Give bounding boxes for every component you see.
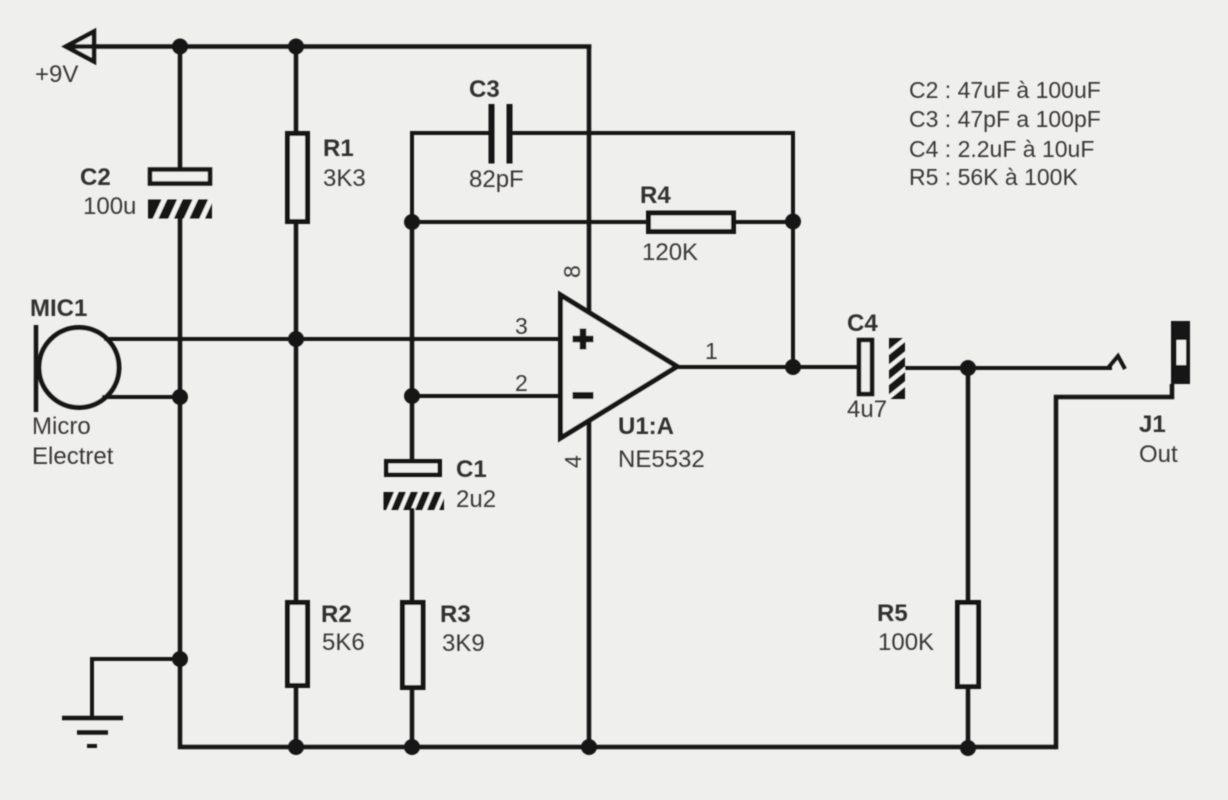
svg-text:3K9: 3K9 [442, 630, 485, 657]
node mic negative [172, 389, 188, 405]
wire jack ground [1056, 384, 1172, 749]
wire mic negative stub [102, 395, 180, 399]
op-amp plus input mark [573, 329, 594, 350]
node pin 2 [404, 388, 420, 404]
wire R1 bottom to R2 top [294, 223, 299, 600]
svg-text:Out: Out [1139, 441, 1178, 468]
wire C1 top lead [410, 396, 415, 459]
connector J1 body [1171, 321, 1190, 384]
svg-text:2: 2 [515, 370, 528, 396]
wire inverting node down [410, 222, 415, 396]
node R5 / rail [960, 740, 976, 756]
svg-text:Electret: Electret [32, 443, 114, 470]
svg-text:Micro: Micro [32, 413, 91, 440]
wire to R4 [412, 220, 646, 224]
wire mic node down [178, 397, 183, 659]
capacitor C2 [148, 170, 213, 223]
svg-text:82pF: 82pF [469, 166, 524, 193]
svg-text:R5: R5 [877, 600, 908, 627]
node ground branch [172, 651, 188, 667]
wire pin 2 [412, 394, 560, 398]
svg-text:1: 1 [705, 338, 718, 364]
jack tip contact [1108, 356, 1125, 369]
wire mic positive to pin 3 [104, 337, 560, 341]
wire output [677, 365, 857, 369]
svg-text:4u7: 4u7 [847, 396, 887, 423]
svg-text:NE5532: NE5532 [618, 446, 705, 473]
wire R1 top lead [294, 47, 299, 133]
ground [62, 718, 123, 746]
wire pin 4 [587, 421, 592, 747]
wire R5 bottom lead [966, 689, 971, 748]
svg-text:J1: J1 [1139, 411, 1166, 438]
wire top rail [66, 44, 591, 49]
resistor R5 [958, 603, 979, 687]
node pin 4 / rail [581, 739, 597, 755]
svg-text:C2 : 47uF à 100uF: C2 : 47uF à 100uF [909, 77, 1101, 103]
node R2 / rail [288, 739, 304, 755]
wire feedback down to output [791, 222, 795, 368]
svg-text:4: 4 [560, 455, 586, 468]
resistor R1 [288, 134, 308, 222]
svg-text:R3: R3 [440, 601, 471, 628]
resistor R2 [288, 603, 308, 686]
microphone MIC1 [36, 325, 119, 412]
wire R5 top lead [966, 368, 971, 600]
resistor R3 [403, 603, 424, 688]
node bias divider [288, 331, 304, 347]
svg-text:5K6: 5K6 [322, 629, 365, 656]
svg-text:C4: C4 [847, 310, 878, 337]
svg-text:C3: C3 [469, 76, 500, 103]
wire ground branch [92, 659, 180, 718]
svg-text:3K3: 3K3 [323, 165, 366, 192]
node R3 / rail [404, 739, 420, 755]
resistor R4 [649, 213, 734, 232]
svg-text:100K: 100K [878, 629, 934, 656]
node inverting branch [404, 214, 420, 230]
power arrow +9V [66, 32, 94, 62]
wire R3 bottom lead [410, 690, 415, 747]
svg-text:R5 : 56K à 100K: R5 : 56K à 100K [909, 164, 1078, 190]
svg-text:C3 : 47pF a 100pF: C3 : 47pF a 100pF [909, 106, 1101, 132]
svg-text:R4: R4 [640, 182, 671, 209]
svg-text:2u2: 2u2 [456, 486, 496, 513]
svg-text:C1: C1 [456, 456, 487, 483]
svg-text:C2: C2 [80, 164, 111, 191]
svg-text:+9V: +9V [35, 61, 78, 88]
wire C2 bottom lead [178, 216, 183, 397]
op-amp minus input mark [573, 392, 594, 399]
svg-text:8: 8 [559, 265, 585, 278]
wire C3 right [512, 133, 793, 221]
wire bottom rail [180, 659, 1056, 747]
svg-text:R1: R1 [323, 135, 354, 162]
svg-text:100u: 100u [83, 193, 136, 220]
wire C4 right [905, 366, 1112, 370]
capacitor C4 [859, 336, 909, 402]
capacitor C1 [384, 461, 447, 514]
svg-text:R2: R2 [321, 601, 352, 628]
svg-text:MIC1: MIC1 [30, 295, 87, 322]
op-amp U1 [561, 295, 678, 438]
svg-text:U1:A: U1:A [618, 413, 674, 440]
wire R2 bottom lead [294, 688, 299, 747]
node feedback [785, 214, 801, 230]
wire C2 top lead [178, 47, 183, 169]
wire C3 left [412, 133, 489, 222]
wire R4 right [736, 220, 793, 224]
capacitor C3 [492, 104, 510, 164]
node output [785, 359, 801, 375]
node top rail / C2 [172, 39, 188, 55]
svg-text:3: 3 [515, 313, 528, 339]
wire C1 bottom lead [410, 508, 415, 600]
node R5 top [960, 360, 976, 376]
node top rail / R1 [288, 39, 304, 55]
svg-text:C4 : 2.2uF à 10uF: C4 : 2.2uF à 10uF [909, 136, 1094, 162]
svg-text:120K: 120K [642, 239, 698, 266]
wire pin 8 [587, 45, 592, 313]
